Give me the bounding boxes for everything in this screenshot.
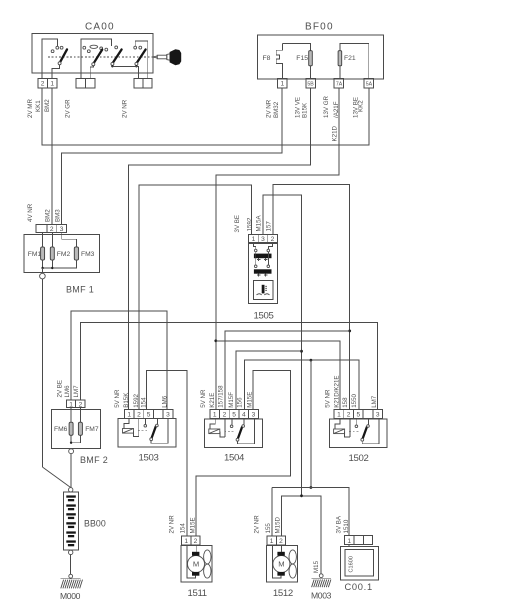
C00.1 stub wire — [348, 545, 350, 547]
svg-text:LM6: LM6 — [64, 385, 71, 398]
svg-text:M15F: M15F — [228, 392, 235, 408]
CA00 switch 1 contacts — [56, 46, 59, 49]
svg-text:C00.1: C00.1 — [345, 582, 373, 592]
svg-text:2V BE: 2V BE — [57, 380, 64, 398]
svg-text:2: 2 — [137, 412, 141, 419]
fuse F21 — [338, 51, 342, 66]
battery BB00 — [60, 488, 106, 600]
ground terminal circle — [319, 574, 323, 578]
svg-text:KK1: KK1 — [35, 100, 42, 112]
svg-text:BM2: BM2 — [44, 99, 51, 112]
CA00 switch 4 junction stub — [135, 64, 137, 67]
svg-text:5B: 5B — [307, 81, 314, 87]
1505 upper heater legs — [257, 258, 267, 261]
wire net LM7: BMF2 pin 2 to 1502 pin 3 — [80, 323, 377, 410]
fuse FM6 — [69, 422, 73, 435]
svg-text:2: 2 — [279, 538, 283, 545]
CA00 connector A pins 2,1 — [38, 78, 57, 88]
1503 pin row pins 1,2,5,-,3 — [124, 410, 173, 419]
svg-text:154: 154 — [141, 397, 148, 408]
svg-text:K21E: K21E — [209, 393, 216, 408]
svg-text:M15E: M15E — [189, 517, 196, 533]
1512 motor box — [266, 546, 297, 583]
svg-text:2V NR: 2V NR — [254, 515, 261, 534]
junction node on 157 at branch to 1504 — [348, 330, 351, 333]
1505 lower contact wires — [256, 252, 269, 265]
1512 brushes — [277, 552, 284, 556]
svg-text:3: 3 — [60, 226, 64, 233]
svg-text:1: 1 — [69, 401, 73, 408]
1505 upper contact wires — [253, 244, 272, 250]
wire net BM3/BM32: BMF1 pin3 to BF00 pin 1 — [62, 88, 283, 224]
1511 internal wires — [187, 545, 196, 578]
svg-text:1512: 1512 — [273, 588, 293, 599]
svg-text:1592: 1592 — [133, 393, 140, 407]
svg-text:FM7: FM7 — [85, 426, 99, 433]
svg-text:5: 5 — [147, 412, 151, 419]
battery top terminal — [69, 488, 73, 492]
svg-text:156: 156 — [236, 397, 243, 408]
svg-text:3: 3 — [376, 412, 380, 419]
svg-text:M: M — [193, 560, 199, 569]
BF00 pin 1 — [278, 78, 288, 88]
svg-text:LM6: LM6 — [161, 395, 168, 408]
1511 motor box — [181, 546, 212, 583]
1504 body — [205, 419, 263, 448]
svg-text:2V NR: 2V NR — [122, 99, 129, 118]
BMF1 output wire and terminal circle — [42, 268, 44, 273]
CA00 switch 2 blade — [94, 50, 102, 63]
thermal switch 1503 — [114, 389, 176, 463]
F21 wire to pin 7A — [339, 66, 341, 79]
1505 upper contacts — [254, 249, 257, 252]
junction node on M15A at branch to 1504 pin 5 — [300, 350, 303, 353]
ground M15 — [311, 560, 332, 600]
wire net 155/1510: motor 1512 pin 1 to C00.1 pin 1 — [272, 488, 349, 536]
junction node on 156 line — [310, 359, 313, 362]
CA00 switch 2 contacts — [83, 46, 86, 49]
1511 brushes — [192, 552, 199, 556]
1505 lower heater bar — [254, 269, 272, 273]
fuse FM7 — [78, 422, 82, 435]
1502 body — [329, 419, 387, 448]
wire net B15K: BF00 pin 5B to 1503 pin 1 — [129, 88, 311, 410]
svg-text:3: 3 — [261, 236, 265, 243]
svg-text:2: 2 — [271, 236, 275, 243]
CA00 switch 2 return wire to pin B right — [90, 66, 93, 79]
svg-text:1510: 1510 — [343, 519, 350, 533]
svg-text:5A: 5A — [366, 81, 373, 87]
1512 pin row pins 1,2 — [267, 536, 286, 545]
wire net LM6: BMF2 pin 1 to 1503 pin 3 — [71, 311, 167, 410]
svg-text:BB00: BB00 — [84, 519, 106, 529]
F15 wire to pin 5B — [310, 66, 312, 79]
CA00 switch 1 feed wire from pin 2 — [42, 39, 57, 79]
ground terminal circle M000 — [69, 574, 73, 578]
svg-text:1: 1 — [127, 412, 131, 419]
svg-text:B15K: B15K — [301, 102, 308, 118]
F15 holder frame — [283, 43, 311, 50]
BMF2 output terminal circle — [69, 449, 74, 454]
svg-text:158: 158 — [342, 397, 349, 408]
1512 internal wires — [272, 545, 281, 578]
C00.1 pin row pin 1 — [345, 536, 373, 545]
battery bottom terminal — [69, 550, 73, 554]
svg-text:LM7: LM7 — [371, 395, 378, 408]
svg-text:FM3: FM3 — [81, 251, 95, 258]
BMF2 pin row pins 1,2 — [67, 400, 86, 408]
svg-text:2: 2 — [223, 412, 227, 419]
BF00 pin 7A — [334, 78, 344, 88]
svg-text:157: 157 — [266, 221, 273, 232]
junction node M15A joins M15 run — [300, 494, 303, 497]
CA00 switch 4 blade — [137, 50, 146, 63]
connector unit C00.1 — [335, 515, 378, 592]
fuse F8 bracket symbol — [276, 50, 282, 63]
svg-text:F21: F21 — [344, 55, 356, 62]
CA00 dashed actuator line — [48, 56, 153, 58]
svg-text:2: 2 — [347, 412, 351, 419]
BMF1 internal wires — [43, 232, 77, 247]
svg-text:FM2: FM2 — [57, 251, 71, 258]
fuse FM3 — [74, 247, 78, 260]
CA00 switch 4 feed wire from pin C right — [135, 41, 148, 78]
svg-text:C1600: C1600 — [348, 556, 354, 572]
CA00 switch 1 return wire to pin 1 — [52, 65, 60, 79]
1512 motor circle M — [273, 556, 290, 573]
wire branch M15F to 1504 pin 5 — [236, 351, 302, 410]
fan motor 1511 — [169, 515, 213, 599]
fuse FM2 — [50, 247, 54, 260]
wire branch K21E to 1502 pin 1 — [216, 341, 340, 410]
1505 upper heater bar — [254, 254, 272, 259]
CA00 outer box — [32, 34, 153, 73]
svg-text:BF00: BF00 — [305, 22, 334, 33]
junction node at 155/1510 tee — [310, 486, 313, 489]
svg-text:1505: 1505 — [254, 310, 274, 321]
CA00 switch 3 contacts — [105, 48, 108, 51]
fuse holder BMF2 — [52, 380, 108, 488]
svg-text:CA00: CA00 — [85, 22, 115, 33]
wire from BMF2 to battery positive — [70, 454, 72, 488]
CA00 bottom bus wire to pin C left — [112, 66, 138, 78]
svg-text:5V NR: 5V NR — [114, 389, 121, 408]
svg-text:1504: 1504 — [224, 452, 245, 463]
wire battery negative to ground M000 — [70, 555, 72, 575]
svg-text:B15K: B15K — [123, 392, 130, 408]
wire branch 157/158 to 1504 pin 2 — [225, 331, 350, 410]
svg-text:BM2: BM2 — [44, 209, 51, 222]
BF00 outer box — [257, 35, 383, 79]
wire net 154: 1503 pin 5 to motor 1511 pin 1 — [146, 370, 187, 535]
1505 inner sub-box — [253, 281, 273, 300]
BMF2 internal wires — [71, 408, 80, 443]
BMF1 box — [24, 235, 100, 273]
C00.1 outer box — [340, 546, 378, 580]
svg-text:2V MR: 2V MR — [27, 99, 34, 118]
BMF2 box — [52, 409, 101, 448]
svg-text:BMF 1: BMF 1 — [66, 284, 94, 294]
svg-text:1: 1 — [270, 538, 274, 545]
svg-text:154: 154 — [180, 523, 187, 534]
fuse FM1 — [41, 247, 45, 260]
svg-text:3: 3 — [166, 412, 170, 419]
svg-text:1592: 1592 — [246, 217, 253, 231]
1505 sub-box icon — [262, 285, 265, 294]
junction node on K21D at branch to 1502 — [214, 339, 217, 342]
1511 fan blades — [204, 550, 211, 564]
CA00 switch 4 contacts — [134, 46, 137, 49]
svg-text:4: 4 — [242, 412, 246, 419]
svg-text:4V NR: 4V NR — [27, 203, 34, 222]
svg-text:K21D/K21E: K21D/K21E — [334, 375, 341, 407]
svg-text:1: 1 — [280, 81, 284, 88]
wire from BMF1 to battery positive — [41, 279, 43, 467]
CA00 switch 3 blade — [113, 50, 122, 63]
fuse holder BMF1 — [24, 203, 100, 487]
svg-text:1: 1 — [347, 538, 351, 545]
1505 lower heater legs — [257, 274, 267, 277]
svg-text:2: 2 — [79, 401, 83, 408]
1505 pin row pins 1,3,2 — [249, 235, 278, 243]
svg-text:1: 1 — [50, 81, 54, 88]
svg-text:2: 2 — [194, 538, 198, 545]
BF00 pin 5A — [364, 78, 374, 88]
svg-text:157/158: 157/158 — [218, 385, 225, 408]
svg-text:5V NR: 5V NR — [325, 389, 332, 408]
wire net 156/1550: 1504 pin 4 to 1502 pin 5 — [244, 360, 359, 410]
CA00 switch 1 blade — [60, 49, 67, 61]
svg-text:2V NR: 2V NR — [169, 515, 176, 534]
svg-text:2: 2 — [50, 226, 54, 233]
svg-text:2V NR: 2V NR — [266, 99, 273, 118]
wire net KK1/KK2: CA00 pin2 to BF00 pin 5A — [42, 88, 369, 145]
1505 body box — [249, 244, 278, 304]
battery body box — [64, 492, 79, 550]
wire net K21D/K21E: BF00 pin 7A to 1504 pin 1 — [216, 88, 339, 410]
BMF1 internal junction nodes — [41, 267, 43, 269]
svg-text:F15: F15 — [296, 55, 308, 62]
svg-text:1502: 1502 — [349, 453, 369, 464]
svg-text:3: 3 — [252, 412, 256, 419]
BF00 pin 5B — [306, 78, 316, 88]
1512 fan blades — [289, 550, 296, 564]
svg-text:3V BE: 3V BE — [234, 215, 241, 233]
ground symbol M003 — [312, 578, 331, 580]
wire net 155/1510 riser — [310, 360, 312, 487]
ground symbol M000 — [61, 578, 81, 580]
svg-text:1: 1 — [184, 538, 188, 545]
wire net M15E: 1504 pin 3 to motor 1511 pin 2 — [196, 371, 290, 536]
1504 pin row pins 1,2,5,4,3 — [210, 410, 258, 419]
svg-text:1: 1 — [337, 412, 341, 419]
1511 motor circle M — [188, 556, 205, 573]
svg-text:M15D: M15D — [275, 516, 282, 533]
svg-text:M: M — [278, 560, 284, 569]
CA00 switch 3 junction stub — [111, 64, 113, 67]
fuse box BF00 — [257, 22, 383, 142]
wire net 1592: 1503 pin 2 to 1505 pin 1 — [139, 185, 252, 410]
CA00 actuator stem — [153, 56, 157, 58]
fuse F15 — [309, 51, 313, 66]
CA00 connector B — [76, 78, 95, 88]
svg-text:1503: 1503 — [139, 452, 159, 463]
svg-text:7A: 7A — [336, 81, 343, 87]
thermal switch 1504 — [200, 385, 262, 463]
svg-text:3V BA: 3V BA — [335, 515, 342, 533]
svg-text:5: 5 — [232, 412, 236, 419]
CA00 knob (black) — [170, 49, 182, 65]
svg-text:M15E: M15E — [246, 392, 253, 408]
svg-text:M000: M000 — [60, 591, 81, 600]
BMF1 pin row with pins 2,3 — [36, 225, 67, 233]
C00.1 inner box — [345, 550, 374, 577]
svg-text:M003: M003 — [311, 591, 332, 600]
svg-text:1550: 1550 — [351, 393, 358, 407]
wire net BM2: CA00 pin1 to BMF1 pin 2 — [51, 88, 53, 224]
1503 body — [118, 418, 176, 447]
1511 pin row pins 1,2 — [182, 536, 201, 545]
svg-text:2: 2 — [41, 81, 45, 88]
svg-text:FM6: FM6 — [54, 426, 68, 433]
svg-text:155: 155 — [265, 523, 272, 534]
switch unit CA00 — [27, 22, 181, 119]
relay/thermal unit 1505 — [234, 214, 277, 321]
1505 lower contacts — [254, 265, 257, 268]
BMF2 internal junction node — [70, 442, 72, 444]
svg-text:M15: M15 — [313, 560, 320, 573]
F21 holder frame — [340, 43, 369, 78]
1502 pin row pins 1,2,5,-,3 — [334, 410, 383, 419]
svg-text:BM3: BM3 — [55, 209, 62, 222]
svg-text:BM32: BM32 — [273, 101, 280, 118]
wire net 157: 1505 pin 2 to 1502 pin 2 — [273, 185, 350, 410]
svg-text:LM7: LM7 — [73, 385, 80, 398]
CA00 connector C — [134, 78, 152, 88]
svg-text:BMF 2: BMF 2 — [80, 455, 108, 465]
svg-text:1511: 1511 — [188, 588, 207, 599]
svg-text:M15A: M15A — [256, 214, 263, 231]
thermal switch 1502 — [325, 375, 388, 464]
svg-text:13V GR: 13V GR — [323, 95, 330, 118]
svg-text:2V GR: 2V GR — [65, 99, 72, 118]
CA00 switch 2 feed wire from pin B left to switch 3 top contact — [81, 39, 112, 79]
svg-text:1: 1 — [252, 236, 256, 243]
fan motor 1512 — [254, 515, 298, 599]
svg-text:F8: F8 — [263, 55, 271, 62]
battery plates — [66, 495, 76, 546]
svg-text:5: 5 — [356, 412, 360, 419]
F8 wire to pin 1 — [282, 43, 284, 78]
svg-text:FM1: FM1 — [28, 251, 42, 258]
svg-text:KK2: KK2 — [358, 100, 365, 112]
svg-text:1: 1 — [213, 412, 217, 419]
svg-text:5V NR: 5V NR — [200, 389, 207, 408]
wire net M15A: 1505 pin 3 down to ground run — [263, 195, 302, 496]
wire net M15D: motor 1512 pin 2 to ground M15 run — [282, 496, 322, 574]
svg-text:K21D: K21D — [331, 125, 338, 141]
